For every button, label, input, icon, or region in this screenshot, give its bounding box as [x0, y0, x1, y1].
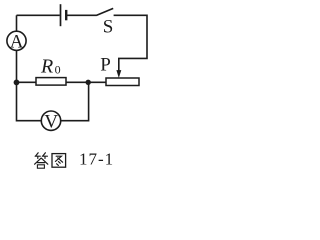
svg-text:S: S [103, 16, 114, 37]
svg-text:R: R [40, 56, 53, 78]
svg-text:P: P [100, 55, 111, 76]
svg-text:V: V [44, 111, 58, 132]
svg-text:0: 0 [55, 63, 61, 77]
svg-text:17-1: 17-1 [79, 150, 114, 169]
svg-text:A: A [10, 31, 24, 52]
